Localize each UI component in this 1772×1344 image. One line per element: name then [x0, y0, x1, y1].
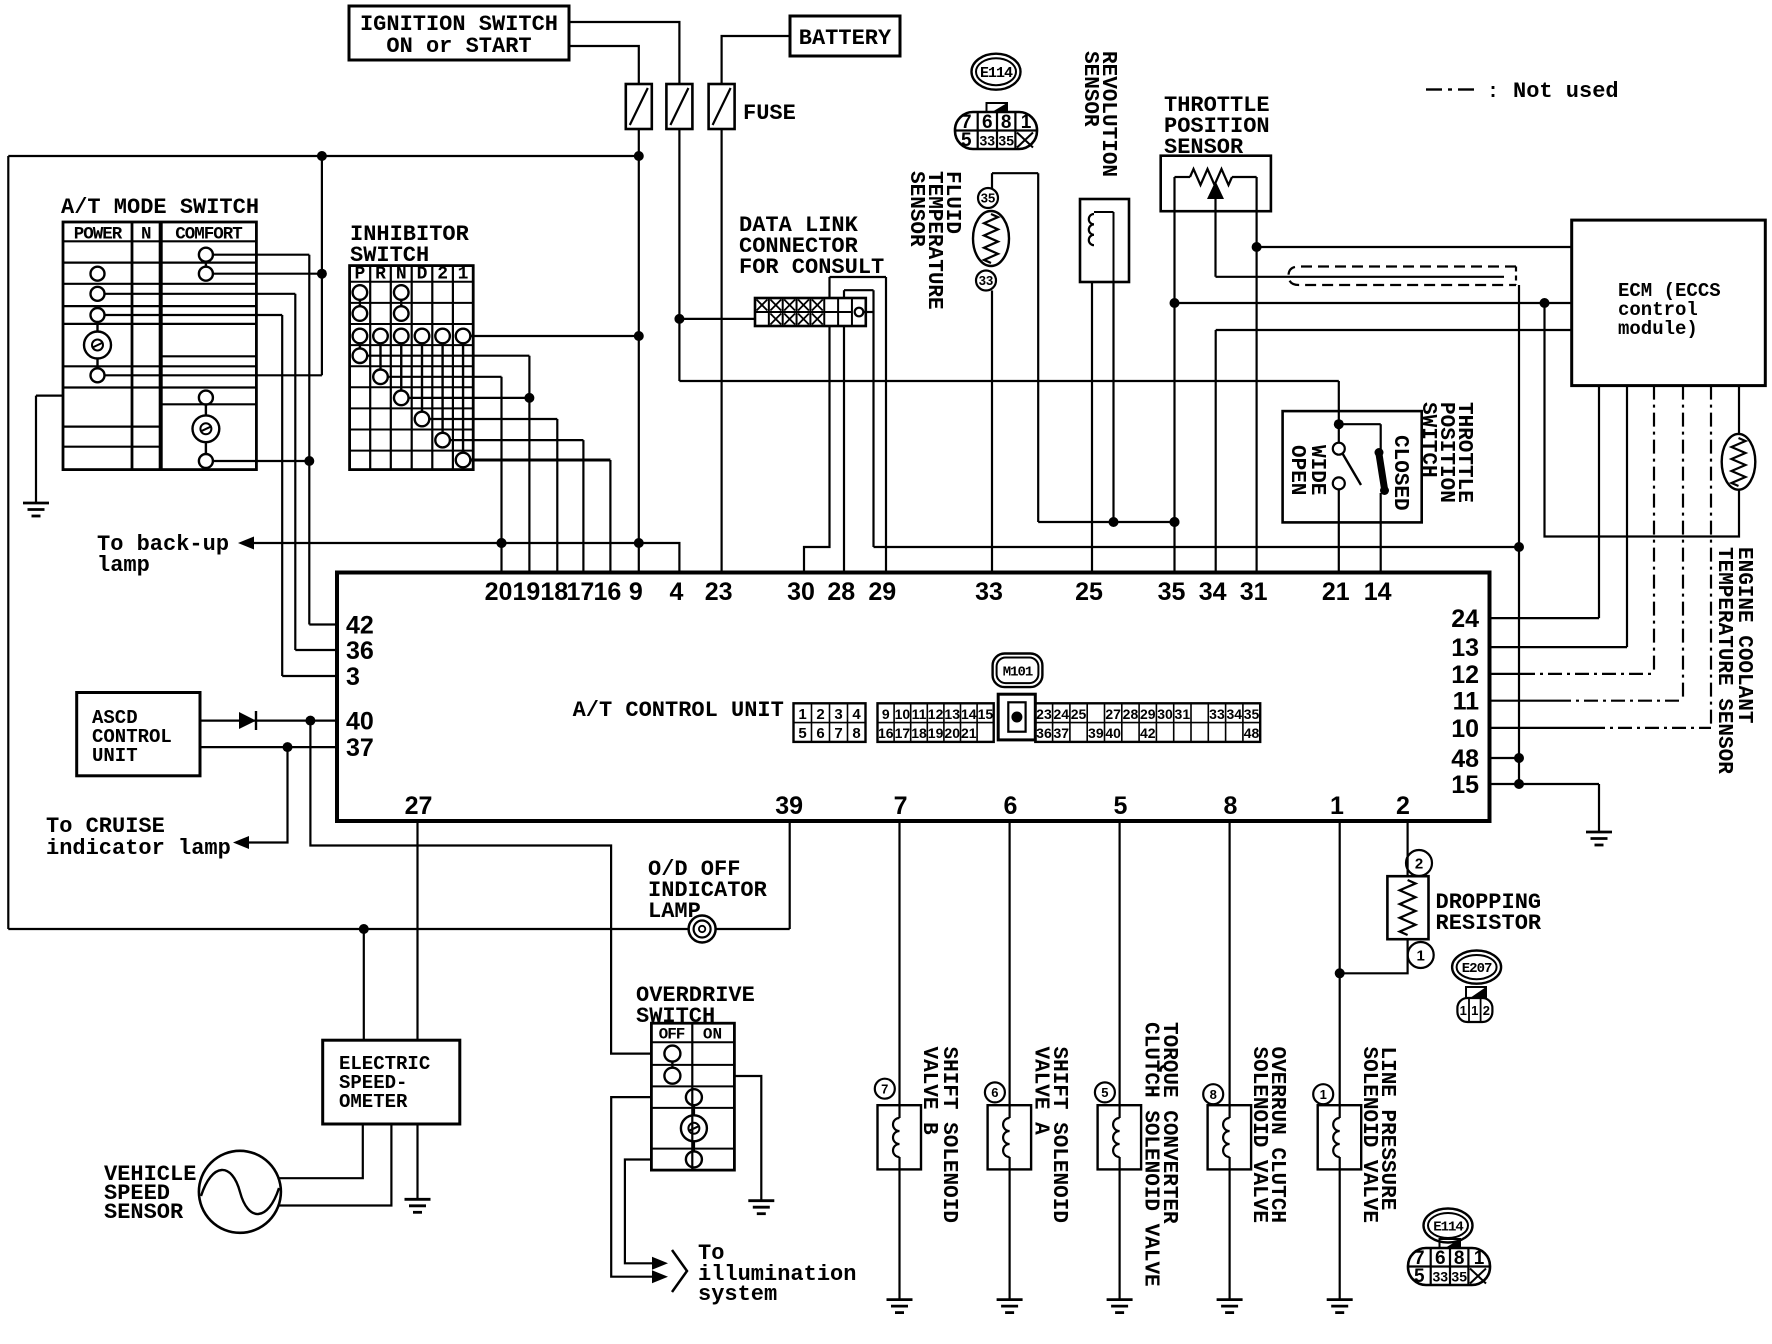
svg-text:SENSOR: SENSOR [104, 1200, 184, 1225]
svg-text:14: 14 [1364, 578, 1392, 606]
svg-text:OMETER: OMETER [339, 1091, 408, 1113]
svg-text:34: 34 [1226, 706, 1242, 722]
svg-text:28: 28 [1123, 706, 1139, 722]
svg-text:42: 42 [1140, 725, 1156, 741]
svg-text:20: 20 [485, 578, 513, 606]
svg-text:27: 27 [405, 792, 433, 820]
svg-text:8: 8 [1001, 112, 1012, 133]
svg-text:35: 35 [1244, 706, 1260, 722]
svg-text:30: 30 [1157, 706, 1173, 722]
svg-text:25: 25 [1071, 706, 1087, 722]
svg-text:19: 19 [928, 725, 944, 741]
svg-text:A/T CONTROL UNIT: A/T CONTROL UNIT [573, 698, 784, 723]
svg-text:14: 14 [961, 706, 977, 722]
svg-text:VALVE B: VALVE B [917, 1047, 940, 1136]
svg-text:39: 39 [1088, 725, 1104, 741]
svg-text:RESISTOR: RESISTOR [1436, 911, 1542, 936]
svg-text:5: 5 [1414, 1266, 1425, 1287]
svg-text:33: 33 [980, 133, 996, 149]
svg-text::: : [1487, 81, 1499, 104]
svg-text:39: 39 [775, 792, 803, 820]
svg-text:LAMP: LAMP [648, 899, 701, 924]
svg-text:9: 9 [629, 578, 643, 606]
svg-text:25: 25 [1075, 578, 1103, 606]
svg-text:7: 7 [881, 1081, 888, 1096]
svg-text:7: 7 [894, 792, 908, 820]
svg-text:system: system [698, 1282, 777, 1307]
svg-text:37: 37 [346, 734, 374, 762]
svg-text:33: 33 [979, 273, 993, 288]
svg-text:1: 1 [1330, 792, 1344, 820]
svg-text:36: 36 [346, 637, 374, 665]
svg-text:35: 35 [998, 133, 1014, 149]
svg-text:18: 18 [911, 725, 927, 741]
svg-text:10: 10 [895, 706, 911, 722]
svg-text:6: 6 [991, 1085, 998, 1100]
svg-text:5: 5 [961, 130, 972, 151]
svg-text:FLUID: FLUID [940, 171, 963, 234]
svg-text:15: 15 [978, 706, 994, 722]
svg-text:12: 12 [1451, 661, 1479, 689]
svg-text:2: 2 [1483, 1003, 1490, 1018]
svg-text:29: 29 [1140, 706, 1156, 722]
svg-text:29: 29 [868, 578, 896, 606]
svg-text:5: 5 [798, 725, 806, 742]
svg-text:35: 35 [1158, 578, 1186, 606]
svg-text:2: 2 [816, 706, 824, 723]
svg-text:10: 10 [1451, 715, 1479, 743]
svg-text:48: 48 [1244, 725, 1260, 741]
svg-text:E207: E207 [1462, 961, 1492, 977]
svg-text:FUSE: FUSE [743, 101, 796, 126]
svg-text:OFF: OFF [659, 1026, 685, 1044]
svg-text:13: 13 [1451, 634, 1479, 662]
svg-text:ENGINE COOLANT: ENGINE COOLANT [1732, 547, 1755, 723]
svg-text:17: 17 [895, 725, 911, 741]
svg-text:5: 5 [1101, 1085, 1108, 1100]
svg-text:36: 36 [1036, 725, 1052, 741]
svg-text:8: 8 [1210, 1087, 1217, 1102]
svg-text:6: 6 [1435, 1248, 1446, 1269]
svg-text:6: 6 [982, 112, 993, 133]
svg-text:2: 2 [1415, 855, 1423, 872]
svg-text:6: 6 [816, 725, 824, 742]
svg-text:1: 1 [1474, 1248, 1485, 1269]
svg-text:1: 1 [1471, 1003, 1478, 1018]
svg-text:37: 37 [1053, 725, 1069, 741]
svg-text:2: 2 [1396, 792, 1410, 820]
svg-text:31: 31 [1240, 578, 1268, 606]
svg-text:6: 6 [1004, 792, 1018, 820]
svg-text:TORQUE CONVERTER: TORQUE CONVERTER [1157, 1022, 1180, 1224]
svg-text:8: 8 [852, 725, 860, 742]
svg-text:24: 24 [1451, 605, 1479, 633]
svg-text:SHIFT SOLENOID: SHIFT SOLENOID [937, 1047, 960, 1223]
svg-text:8: 8 [1224, 792, 1238, 820]
svg-text:CLOSED: CLOSED [1388, 435, 1411, 511]
svg-text:42: 42 [346, 612, 374, 640]
svg-text:REVOLUTION: REVOLUTION [1096, 51, 1119, 177]
svg-text:Not used: Not used [1513, 79, 1619, 104]
svg-text:18: 18 [540, 578, 568, 606]
svg-text:27: 27 [1105, 706, 1121, 722]
svg-text:12: 12 [928, 706, 944, 722]
svg-text:E114: E114 [1433, 1220, 1463, 1236]
svg-text:35: 35 [981, 191, 995, 206]
svg-text:48: 48 [1451, 745, 1479, 773]
svg-text:21: 21 [961, 725, 977, 741]
svg-text:23: 23 [1036, 706, 1052, 722]
svg-text:4: 4 [852, 706, 861, 723]
svg-text:33: 33 [975, 578, 1003, 606]
svg-text:1: 1 [1417, 947, 1425, 964]
svg-text:4: 4 [669, 578, 683, 606]
svg-text:3: 3 [346, 663, 360, 691]
svg-text:20: 20 [944, 725, 960, 741]
svg-text:16: 16 [878, 725, 894, 741]
svg-text:33: 33 [1209, 706, 1225, 722]
svg-text:1: 1 [798, 706, 806, 723]
svg-text:24: 24 [1053, 706, 1069, 722]
svg-text:40: 40 [346, 708, 374, 736]
svg-text:E114: E114 [980, 65, 1013, 82]
svg-text:35: 35 [1451, 1269, 1467, 1285]
svg-text:OPEN: OPEN [1285, 445, 1308, 495]
svg-text:WIDE: WIDE [1305, 445, 1328, 495]
svg-text:UNIT: UNIT [92, 745, 138, 767]
svg-text:15: 15 [1451, 771, 1479, 799]
svg-text:13: 13 [944, 706, 960, 722]
svg-text:21: 21 [1322, 578, 1350, 606]
svg-text:7: 7 [834, 725, 842, 742]
svg-text:11: 11 [1453, 688, 1480, 716]
svg-text:A/T MODE SWITCH: A/T MODE SWITCH [61, 195, 259, 220]
svg-text:OVERRUN CLUTCH: OVERRUN CLUTCH [1265, 1047, 1288, 1223]
svg-text:17: 17 [566, 578, 594, 606]
svg-text:28: 28 [827, 578, 855, 606]
svg-text:ON: ON [703, 1026, 722, 1044]
svg-text:indicator lamp: indicator lamp [46, 836, 231, 861]
svg-text:module): module) [1618, 318, 1698, 340]
svg-text:3: 3 [834, 706, 842, 723]
svg-text:THROTTLE: THROTTLE [1452, 402, 1475, 503]
svg-text:40: 40 [1105, 725, 1121, 741]
svg-text:1: 1 [1460, 1003, 1467, 1018]
svg-text:SHIFT SOLENOID: SHIFT SOLENOID [1047, 1047, 1070, 1223]
svg-text:9: 9 [882, 706, 890, 722]
svg-text:16: 16 [593, 578, 621, 606]
svg-text:TEMPERATURE SENSOR: TEMPERATURE SENSOR [1712, 547, 1735, 774]
svg-text:lamp: lamp [97, 553, 150, 578]
svg-text:1: 1 [1021, 112, 1032, 133]
svg-text:11: 11 [912, 706, 927, 722]
svg-text:23: 23 [705, 578, 733, 606]
svg-text:30: 30 [787, 578, 815, 606]
svg-text:1: 1 [1320, 1087, 1327, 1102]
svg-text:LINE PRESSURE: LINE PRESSURE [1375, 1047, 1398, 1211]
svg-text:31: 31 [1175, 706, 1191, 722]
svg-text:ON or START: ON or START [386, 34, 531, 59]
svg-text:19: 19 [512, 578, 540, 606]
svg-text:M101: M101 [1003, 664, 1033, 680]
svg-text:5: 5 [1114, 792, 1128, 820]
svg-text:34: 34 [1199, 578, 1227, 606]
svg-text:BATTERY: BATTERY [799, 26, 892, 51]
svg-text:33: 33 [1433, 1269, 1449, 1285]
svg-text:8: 8 [1454, 1248, 1465, 1269]
